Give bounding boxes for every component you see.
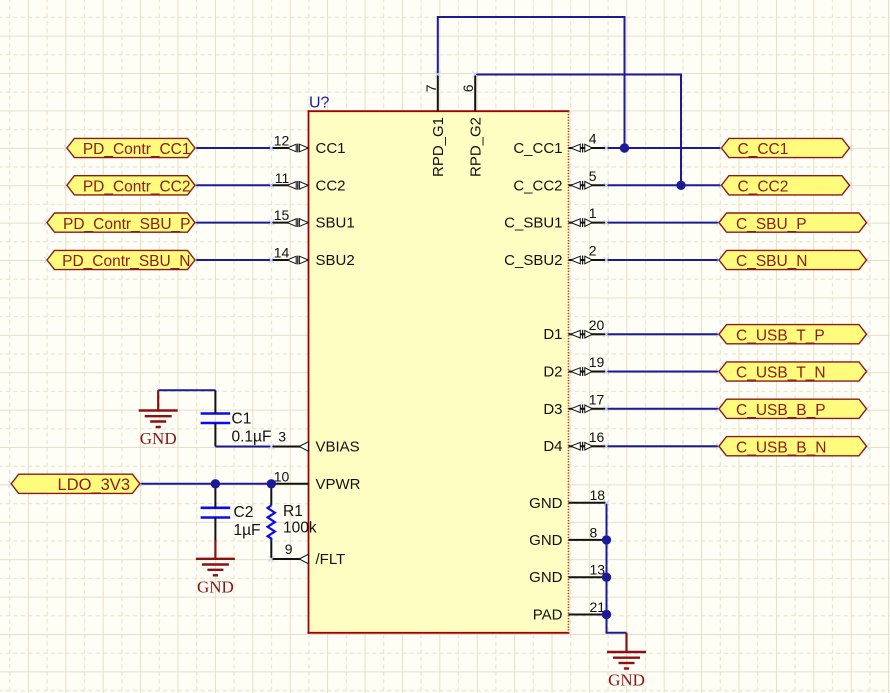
- svg-text:RPD_G1: RPD_G1: [430, 117, 447, 177]
- svg-text:VPWR: VPWR: [316, 476, 361, 493]
- svg-text:PAD: PAD: [533, 607, 563, 624]
- svg-text:D3: D3: [543, 401, 562, 418]
- svg-text:GND: GND: [529, 495, 563, 512]
- svg-text:D4: D4: [543, 438, 562, 455]
- svg-text:C_SBU_P: C_SBU_P: [736, 216, 807, 233]
- svg-text:U?: U?: [309, 95, 330, 112]
- svg-text:GND: GND: [529, 569, 563, 586]
- svg-text:PD_Contr_SBU_N: PD_Contr_SBU_N: [62, 253, 190, 270]
- svg-text:1µF: 1µF: [234, 522, 261, 539]
- svg-text:15: 15: [274, 207, 290, 223]
- svg-text:RPD_G2: RPD_G2: [468, 117, 485, 177]
- svg-text:CC2: CC2: [316, 177, 346, 194]
- svg-text:SBU2: SBU2: [316, 252, 355, 269]
- svg-text:C_USB_B_N: C_USB_B_N: [736, 439, 826, 456]
- svg-text:C_CC1: C_CC1: [738, 141, 789, 158]
- svg-text:10: 10: [274, 468, 290, 484]
- svg-text:0.1µF: 0.1µF: [232, 428, 272, 445]
- svg-text:C_CC2: C_CC2: [513, 177, 562, 194]
- svg-text:3: 3: [278, 429, 286, 445]
- svg-text:R1: R1: [283, 503, 303, 520]
- svg-text:20: 20: [589, 317, 605, 333]
- svg-text:2: 2: [589, 243, 597, 259]
- svg-text:PD_Contr_CC2: PD_Contr_CC2: [83, 179, 191, 196]
- svg-text:C_USB_T_N: C_USB_T_N: [736, 365, 826, 382]
- svg-text:C2: C2: [234, 504, 254, 521]
- svg-text:VBIAS: VBIAS: [316, 439, 360, 456]
- svg-text:C_USB_T_P: C_USB_T_P: [736, 327, 825, 344]
- svg-text:SBU1: SBU1: [316, 215, 355, 232]
- svg-text:GND: GND: [140, 429, 177, 448]
- svg-text:8: 8: [590, 524, 598, 540]
- svg-text:C_CC2: C_CC2: [738, 179, 789, 196]
- svg-text:C_SBU1: C_SBU1: [504, 215, 562, 232]
- svg-text:18: 18: [590, 487, 606, 503]
- svg-text:GND: GND: [197, 577, 234, 596]
- svg-text:7: 7: [423, 84, 439, 92]
- svg-text:GND: GND: [608, 671, 645, 690]
- svg-text:1: 1: [589, 205, 597, 221]
- svg-text:9: 9: [285, 541, 293, 557]
- svg-text:C_SBU_N: C_SBU_N: [736, 253, 808, 270]
- svg-text:5: 5: [589, 168, 597, 184]
- svg-text:PD_Contr_SBU_P: PD_Contr_SBU_P: [63, 216, 191, 233]
- svg-text:/FLT: /FLT: [316, 551, 346, 568]
- svg-text:C1: C1: [232, 410, 252, 427]
- svg-text:LDO_3V3: LDO_3V3: [58, 476, 130, 494]
- svg-text:CC1: CC1: [316, 140, 346, 157]
- svg-text:PD_Contr_CC1: PD_Contr_CC1: [83, 141, 191, 158]
- svg-text:16: 16: [589, 429, 605, 445]
- svg-text:C_CC1: C_CC1: [513, 140, 562, 157]
- svg-text:12: 12: [274, 133, 290, 149]
- svg-text:19: 19: [589, 354, 605, 370]
- svg-text:6: 6: [460, 84, 476, 92]
- svg-text:4: 4: [589, 131, 597, 147]
- svg-text:C_SBU2: C_SBU2: [504, 252, 562, 269]
- svg-text:17: 17: [589, 391, 605, 407]
- svg-text:100k: 100k: [283, 520, 317, 537]
- svg-text:14: 14: [274, 245, 290, 261]
- svg-text:D1: D1: [543, 326, 562, 343]
- svg-text:11: 11: [275, 170, 290, 186]
- svg-text:C_USB_B_P: C_USB_B_P: [736, 402, 826, 419]
- svg-text:D2: D2: [543, 364, 562, 381]
- svg-text:GND: GND: [529, 532, 563, 549]
